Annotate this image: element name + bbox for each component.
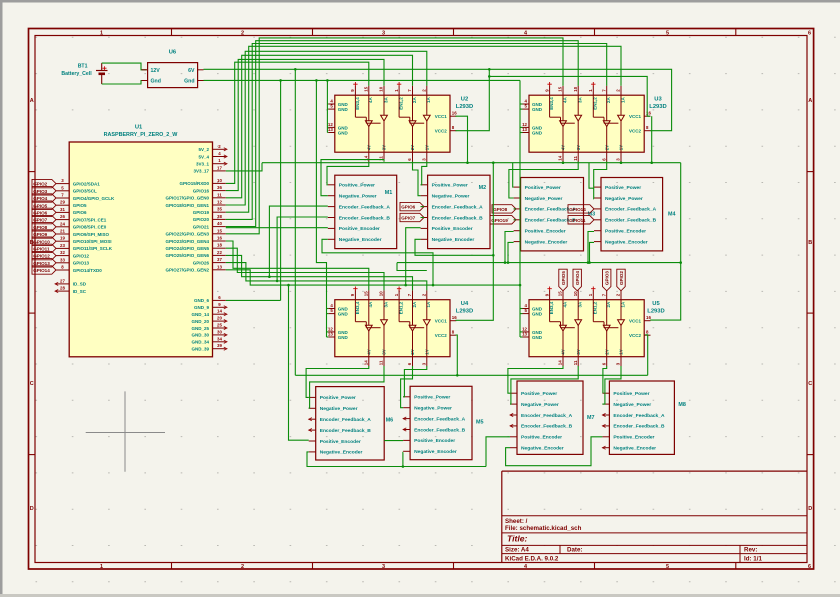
svg-text:GPIO8: GPIO8 <box>33 225 47 230</box>
svg-text:Positive_Encoder: Positive_Encoder <box>613 435 654 441</box>
svg-text:39: 39 <box>217 343 222 348</box>
svg-text:Encoder_Feedback_A: Encoder_Feedback_A <box>432 204 484 210</box>
svg-text:GPIO5: GPIO5 <box>73 203 87 208</box>
svg-text:U6: U6 <box>169 50 177 56</box>
svg-text:GPIO24/GPIO_GEN5: GPIO24/GPIO_GEN5 <box>165 246 209 251</box>
wire 6V branch to U3 VCC1 <box>489 76 650 116</box>
svg-text:GPIO3/SCL: GPIO3/SCL <box>73 189 97 194</box>
svg-text:35: 35 <box>217 207 222 212</box>
svg-text:ID_SC: ID_SC <box>73 289 87 294</box>
svg-text:25: 25 <box>217 323 222 328</box>
svg-text:18: 18 <box>217 243 222 248</box>
svg-text:GND: GND <box>338 131 349 136</box>
wire Gnd drop to U2 GND pins <box>326 80 329 132</box>
svg-text:1: 1 <box>100 30 103 36</box>
svg-text:2: 2 <box>241 564 244 570</box>
driver U2 L293D <box>328 82 457 162</box>
wire U1 GND_6 to Gnd vertical <box>226 299 281 301</box>
svg-text:Positive_Power: Positive_Power <box>605 185 641 191</box>
svg-text:GND_20: GND_20 <box>191 319 209 324</box>
svg-text:C: C <box>808 381 812 387</box>
svg-text:VCC2: VCC2 <box>629 333 642 338</box>
svg-text:GPIO2: GPIO2 <box>619 271 624 285</box>
svg-text:GND: GND <box>532 312 543 317</box>
svg-text:Negative_Encoder: Negative_Encoder <box>432 237 475 243</box>
svg-text:U2: U2 <box>461 97 468 103</box>
svg-text:GND_25: GND_25 <box>191 326 209 331</box>
svg-text:GND: GND <box>338 335 349 340</box>
svg-text:GPIO7: GPIO7 <box>401 216 415 221</box>
svg-text:Title:: Title: <box>507 534 528 544</box>
svg-text:Encoder_Feedback_B: Encoder_Feedback_B <box>320 428 372 434</box>
wire VCC1 rail <box>262 161 681 164</box>
svg-text:VCC2: VCC2 <box>629 129 642 134</box>
svg-text:Negative_Power: Negative_Power <box>432 194 470 200</box>
svg-text:GND_30: GND_30 <box>191 333 209 338</box>
wire M4 positive encoder to node line <box>587 232 594 264</box>
svg-text:GPIO21: GPIO21 <box>193 224 210 229</box>
wire Gnd vertical to U1 GND pin <box>280 80 282 300</box>
svg-text:GPIO9/SPI_MISO: GPIO9/SPI_MISO <box>73 232 110 237</box>
svg-text:3: 3 <box>382 30 385 36</box>
svg-text:14: 14 <box>558 360 563 365</box>
svg-text:GPIO9: GPIO9 <box>33 232 47 237</box>
svg-text:11: 11 <box>379 360 384 365</box>
svg-text:GPIO14: GPIO14 <box>569 207 586 212</box>
svg-text:37: 37 <box>217 257 222 262</box>
wire M5 positive encoder <box>384 440 403 442</box>
svg-text:32: 32 <box>60 250 65 255</box>
wire battery to U6 <box>102 63 147 84</box>
svg-text:17: 17 <box>217 165 222 170</box>
svg-text:GPIO3: GPIO3 <box>605 271 610 285</box>
svg-text:14: 14 <box>558 155 563 160</box>
wire M1 positive encoder from U1 GPIO21 <box>226 227 328 229</box>
wire U5 outputs to M7 <box>508 366 578 404</box>
svg-text:GPIO20: GPIO20 <box>193 217 210 222</box>
svg-text:C: C <box>30 381 34 387</box>
svg-text:Positive_Encoder: Positive_Encoder <box>320 439 361 445</box>
wire U5 outputs to M8 <box>602 366 621 404</box>
hierarchical labels GPIO2-GPIO5 at U5 inputs <box>559 269 625 291</box>
svg-text:Negative_Encoder: Negative_Encoder <box>339 237 382 243</box>
svg-text:M5: M5 <box>476 419 484 425</box>
wire U2 outputs to M2 <box>413 162 427 196</box>
svg-text:10: 10 <box>217 178 222 183</box>
svg-text:GPIO16: GPIO16 <box>193 188 210 193</box>
svg-text:13: 13 <box>217 264 222 269</box>
hierarchical labels GPIO2-GPIO14 at U1 <box>32 179 56 274</box>
svg-text:GPIO14: GPIO14 <box>33 268 50 273</box>
svg-text:38: 38 <box>217 214 222 219</box>
wire U4 outputs to M5 <box>401 366 427 408</box>
hierarchical labels GPIO8 GPIO19 at M3 <box>490 205 516 224</box>
svg-text:GPIO22/GPIO_GEN3: GPIO22/GPIO_GEN3 <box>165 232 209 237</box>
wire M1 negative encoder loop <box>322 239 434 286</box>
connector M4 motor <box>594 178 676 251</box>
svg-text:10: 10 <box>573 291 578 296</box>
svg-text:Positive_Power: Positive_Power <box>525 185 561 191</box>
wire U3 outputs to M4 <box>589 162 621 199</box>
wire U2 VCC2 to 6V <box>456 69 491 130</box>
svg-text:GPIO14/TXD0: GPIO14/TXD0 <box>73 268 103 273</box>
wire Gnd drop to U4 GND pins <box>316 80 328 337</box>
svg-text:GPIO4: GPIO4 <box>33 196 47 201</box>
svg-text:GPIO3: GPIO3 <box>33 189 47 194</box>
svg-text:File: schematic.kicad_sch: File: schematic.kicad_sch <box>505 525 582 532</box>
wire long node line below M blocks <box>397 261 682 270</box>
svg-text:GPIO19: GPIO19 <box>193 210 210 215</box>
svg-text:RASPBERRY_PI_ZERO_2_W: RASPBERRY_PI_ZERO_2_W <box>104 132 179 138</box>
svg-text:Battery_Cell: Battery_Cell <box>61 71 92 77</box>
svg-text:GPIO12: GPIO12 <box>33 254 50 259</box>
svg-text:GND: GND <box>532 335 543 340</box>
svg-text:BT1: BT1 <box>78 64 88 70</box>
svg-text:Negative_Power: Negative_Power <box>339 194 377 200</box>
svg-text:GPIO6: GPIO6 <box>401 205 415 210</box>
svg-text:5V_4: 5V_4 <box>198 154 209 159</box>
svg-text:GPIO13: GPIO13 <box>73 261 90 266</box>
svg-text:Encoder_Feedback_A: Encoder_Feedback_A <box>414 416 466 422</box>
driver U5 L293D <box>522 287 651 367</box>
svg-text:Positive_Power: Positive_Power <box>339 183 375 189</box>
connector M3 motor <box>514 178 596 251</box>
svg-text:GPIO15/RXD0: GPIO15/RXD0 <box>179 181 209 186</box>
svg-text:Sheet: /: Sheet: / <box>505 518 528 525</box>
svg-text:B: B <box>808 240 812 246</box>
connector M2 motor <box>421 175 490 248</box>
svg-text:GPIO10/SPI_MOSI: GPIO10/SPI_MOSI <box>73 239 112 244</box>
svg-text:GPIO5: GPIO5 <box>33 203 47 208</box>
svg-text:GPIO7/SPI_CE1: GPIO7/SPI_CE1 <box>73 217 107 222</box>
svg-text:Positive_Encoder: Positive_Encoder <box>339 226 380 232</box>
svg-text:28: 28 <box>60 286 65 291</box>
wire M6 negative encoder loop <box>307 452 486 467</box>
svg-text:30: 30 <box>217 329 222 334</box>
svg-text:Negative_Power: Negative_Power <box>414 406 452 412</box>
svg-text:26: 26 <box>60 214 65 219</box>
svg-text:10: 10 <box>379 86 384 91</box>
svg-text:GPIO5: GPIO5 <box>561 271 566 285</box>
svg-text:VCC2: VCC2 <box>435 129 448 134</box>
wire M1 encoder feedback to lower band <box>268 206 328 282</box>
svg-text:6: 6 <box>808 30 811 36</box>
svg-text:U3: U3 <box>654 97 662 103</box>
svg-text:M8: M8 <box>678 402 686 408</box>
svg-text:Date:: Date: <box>567 547 582 554</box>
svg-text:VCC1: VCC1 <box>629 319 642 324</box>
svg-text:GND: GND <box>338 107 349 112</box>
svg-text:GND_14: GND_14 <box>191 312 209 317</box>
svg-text:1: 1 <box>100 564 103 570</box>
svg-text:D: D <box>30 506 34 512</box>
svg-text:GPIO11: GPIO11 <box>33 247 50 252</box>
svg-text:M2: M2 <box>479 185 487 191</box>
svg-text:27: 27 <box>60 278 65 283</box>
svg-text:Gnd: Gnd <box>184 79 194 85</box>
svg-text:24: 24 <box>60 221 65 226</box>
svg-text:GPIO6: GPIO6 <box>73 210 87 215</box>
svg-text:GPIO2/SDA1: GPIO2/SDA1 <box>73 181 101 186</box>
svg-text:GND: GND <box>532 107 543 112</box>
svg-text:29: 29 <box>60 200 65 205</box>
wire U4 outputs to M6 <box>306 366 384 408</box>
svg-text:U4: U4 <box>461 301 469 307</box>
svg-text:M4: M4 <box>668 212 676 218</box>
svg-text:5: 5 <box>666 30 669 36</box>
svg-text:3V3_17: 3V3_17 <box>193 169 209 174</box>
svg-text:Positive_Power: Positive_Power <box>414 395 450 401</box>
svg-text:6V: 6V <box>188 68 195 74</box>
wire M3 negative encoder loop <box>507 242 514 264</box>
svg-text:31: 31 <box>60 207 65 212</box>
svg-text:GND: GND <box>338 312 349 317</box>
svg-text:14: 14 <box>364 360 369 365</box>
wire M6 positive encoder from node <box>287 284 309 440</box>
svg-text:GPIO10: GPIO10 <box>33 239 50 244</box>
svg-text:L293D: L293D <box>647 309 664 315</box>
svg-text:Positive_Power: Positive_Power <box>613 391 649 397</box>
svg-text:GPIO17/GPIO_GEN0: GPIO17/GPIO_GEN0 <box>165 196 209 201</box>
svg-text:Encoder_Feedback_B: Encoder_Feedback_B <box>339 215 391 221</box>
svg-text:2: 2 <box>241 30 244 36</box>
svg-text:22: 22 <box>217 250 222 255</box>
svg-text:ID_SD: ID_SD <box>73 282 87 287</box>
connector M1 motor <box>328 175 397 248</box>
wire M2 negative encoder loop <box>415 239 493 255</box>
svg-text:15: 15 <box>364 86 369 91</box>
svg-text:15: 15 <box>364 291 369 296</box>
svg-text:Encoder_Feedback_A: Encoder_Feedback_A <box>320 417 372 423</box>
wire M3 positive encoder <box>504 232 514 264</box>
svg-text:VCC1: VCC1 <box>435 319 448 324</box>
sheet title block <box>502 471 807 562</box>
svg-text:Negative_Encoder: Negative_Encoder <box>605 239 648 245</box>
wire U3 VCC1 to U5 VCC1 chain <box>650 116 681 320</box>
svg-text:14: 14 <box>217 309 222 314</box>
svg-text:M6: M6 <box>386 418 394 424</box>
wire 6V drop to lower rail <box>294 68 297 375</box>
svg-text:10: 10 <box>379 291 384 296</box>
wire Gnd rail from U6 <box>204 79 521 82</box>
svg-text:GPIO25/GPIO_GEN6: GPIO25/GPIO_GEN6 <box>165 253 209 258</box>
driver U4 L293D <box>328 287 457 367</box>
svg-text:34: 34 <box>217 336 222 341</box>
svg-text:L293D: L293D <box>649 104 666 110</box>
svg-text:15: 15 <box>558 86 563 91</box>
svg-text:5V_2: 5V_2 <box>198 147 209 152</box>
svg-text:21: 21 <box>60 229 65 234</box>
svg-text:VCC2: VCC2 <box>435 333 448 338</box>
wire M4 negative encoder loop <box>588 242 594 264</box>
svg-text:M7: M7 <box>587 415 595 421</box>
svg-text:Negative_Encoder: Negative_Encoder <box>521 446 564 452</box>
svg-text:Positive_Encoder: Positive_Encoder <box>525 229 566 235</box>
svg-text:11: 11 <box>573 156 578 161</box>
connector M5 motor <box>403 386 483 459</box>
svg-text:GPIO23/GPIO_GEN4: GPIO23/GPIO_GEN4 <box>165 239 209 244</box>
svg-text:Encoder_Feedback_B: Encoder_Feedback_B <box>521 424 573 430</box>
svg-text:GND_9: GND_9 <box>194 305 210 310</box>
svg-text:A: A <box>808 98 812 104</box>
svg-text:GPIO4/GPIO_GCLK: GPIO4/GPIO_GCLK <box>73 196 115 201</box>
svg-text:Encoder_Feedback_B: Encoder_Feedback_B <box>613 424 665 430</box>
wire band U1 to U4 inputs <box>226 241 427 290</box>
svg-text:Negative_Power: Negative_Power <box>613 402 651 408</box>
wire Gnd drop to U3 and U5 GND pins <box>520 80 523 337</box>
svg-text:A: A <box>30 98 34 104</box>
connector M6 motor <box>309 387 394 460</box>
svg-text:13: 13 <box>328 332 333 337</box>
svg-text:20: 20 <box>217 316 222 321</box>
svg-text:Size: A4: Size: A4 <box>505 547 529 554</box>
svg-text:16: 16 <box>452 111 457 116</box>
origin marker cross <box>86 391 165 471</box>
wire lower power rail <box>295 374 647 376</box>
hierarchical labels GPIO14 GPIO11 at M4 <box>568 205 594 224</box>
svg-text:10: 10 <box>573 86 578 91</box>
svg-text:19: 19 <box>60 236 65 241</box>
svg-text:16: 16 <box>646 315 651 320</box>
wire U1 3V3_17 to VCC1 rail <box>226 163 262 171</box>
svg-text:Gnd: Gnd <box>151 79 161 85</box>
wire M7 negative encoder loop to M8 positive encoder <box>506 437 603 466</box>
svg-text:40: 40 <box>217 221 222 226</box>
svg-text:U1: U1 <box>135 124 143 130</box>
wire M2 positive encoder drop <box>404 228 420 287</box>
svg-text:12V: 12V <box>151 68 161 74</box>
svg-text:Negative_Power: Negative_Power <box>605 196 643 202</box>
svg-text:U5: U5 <box>652 301 660 307</box>
svg-text:23: 23 <box>60 243 65 248</box>
svg-text:Negative_Encoder: Negative_Encoder <box>613 446 656 452</box>
svg-text:GPIO11: GPIO11 <box>569 218 586 223</box>
svg-text:Positive_Encoder: Positive_Encoder <box>605 229 646 235</box>
svg-text:Positive_Encoder: Positive_Encoder <box>432 226 473 232</box>
svg-text:Id: 1/1: Id: 1/1 <box>744 555 762 562</box>
svg-text:L293D: L293D <box>456 309 473 315</box>
svg-text:Encoder_Feedback_B: Encoder_Feedback_B <box>414 427 466 433</box>
svg-text:M1: M1 <box>385 190 393 196</box>
svg-text:Encoder_Feedback_A: Encoder_Feedback_A <box>605 207 657 213</box>
wire U3 outputs to M3 <box>509 162 578 199</box>
svg-text:GND: GND <box>532 131 543 136</box>
svg-text:GND_39: GND_39 <box>191 347 209 352</box>
wire U5 VCC2 to lower rail <box>645 335 647 376</box>
svg-text:11: 11 <box>217 192 222 197</box>
wire bundle U1 GPIO to U2/U3 inputs <box>226 38 621 234</box>
svg-text:6: 6 <box>808 564 811 570</box>
wire band U1 GPIO27 node <box>226 270 522 287</box>
svg-text:D: D <box>808 506 812 512</box>
connector M8 motor <box>602 381 686 454</box>
svg-text:Encoder_Feedback_A: Encoder_Feedback_A <box>339 204 391 210</box>
wire U4 VCC2 to lower rail <box>456 335 459 377</box>
hierarchical labels GPIO6 GPIO7 at M2 <box>400 202 424 221</box>
svg-text:33: 33 <box>60 257 65 262</box>
svg-text:Encoder_Feedback_B: Encoder_Feedback_B <box>432 215 484 221</box>
svg-text:15: 15 <box>558 291 563 296</box>
svg-text:11: 11 <box>573 360 578 365</box>
wire M5 negative encoder loop <box>402 452 405 468</box>
svg-text:GND_34: GND_34 <box>191 340 209 345</box>
svg-text:13: 13 <box>522 127 527 132</box>
svg-text:GPIO8: GPIO8 <box>493 207 507 212</box>
battery BT1 <box>61 63 107 84</box>
svg-text:GPIO18/GPIO_GEN1: GPIO18/GPIO_GEN1 <box>165 203 209 208</box>
svg-text:16: 16 <box>452 315 457 320</box>
svg-text:Negative_Encoder: Negative_Encoder <box>525 239 568 245</box>
driver U3 L293D <box>522 82 651 162</box>
wire U4 VCC1 from rail <box>456 163 495 321</box>
wire bus to M7 positive encoder <box>486 437 510 467</box>
svg-text:KiCad E.D.A. 9.0.2: KiCad E.D.A. 9.0.2 <box>505 555 559 562</box>
svg-text:3: 3 <box>382 564 385 570</box>
svg-text:GPIO26: GPIO26 <box>193 260 210 265</box>
svg-text:16: 16 <box>217 236 222 241</box>
svg-text:GPIO6: GPIO6 <box>33 211 47 216</box>
wire U2 VCC1 to rail <box>456 116 468 163</box>
wire U2 outputs to M1 <box>321 160 384 196</box>
svg-text:15: 15 <box>217 228 222 233</box>
wire 6V rail from U6 <box>204 68 672 131</box>
svg-text:GPIO12: GPIO12 <box>73 253 90 258</box>
svg-text:GPIO27/GPIO_GEN2: GPIO27/GPIO_GEN2 <box>165 268 209 273</box>
svg-text:3V3_1: 3V3_1 <box>196 162 210 167</box>
connector M7 motor <box>510 381 595 454</box>
svg-text:Positive_Encoder: Positive_Encoder <box>414 438 455 444</box>
svg-text:GPIO4: GPIO4 <box>575 271 580 285</box>
svg-text:13: 13 <box>522 332 527 337</box>
svg-text:GPIO13: GPIO13 <box>33 261 50 266</box>
svg-text:L293D: L293D <box>456 104 473 110</box>
svg-text:VCC1: VCC1 <box>435 114 448 119</box>
svg-text:VCC1: VCC1 <box>629 114 642 119</box>
svg-text:GND_6: GND_6 <box>194 298 210 303</box>
svg-text:GPIO8/SPI_CE0: GPIO8/SPI_CE0 <box>73 225 107 230</box>
svg-text:12: 12 <box>217 200 222 205</box>
svg-text:Negative_Power: Negative_Power <box>521 402 559 408</box>
svg-text:13: 13 <box>328 127 333 132</box>
svg-text:Encoder_Feedback_A: Encoder_Feedback_A <box>521 413 573 419</box>
svg-text:Negative_Encoder: Negative_Encoder <box>320 450 363 456</box>
svg-text:Negative_Power: Negative_Power <box>320 406 358 412</box>
svg-text:Positive_Encoder: Positive_Encoder <box>521 435 562 441</box>
svg-text:GPIO2: GPIO2 <box>33 182 47 187</box>
svg-text:36: 36 <box>217 185 222 190</box>
svg-text:Positive_Power: Positive_Power <box>521 391 557 397</box>
svg-text:GPIO11/SPI_SCLK: GPIO11/SPI_SCLK <box>73 246 113 251</box>
svg-text:GPIO7: GPIO7 <box>33 218 47 223</box>
svg-text:Encoder_Feedback_A: Encoder_Feedback_A <box>613 413 665 419</box>
svg-text:Positive_Power: Positive_Power <box>432 183 468 189</box>
svg-text:Rev:: Rev: <box>744 547 757 554</box>
svg-text:Encoder_Feedback_B: Encoder_Feedback_B <box>605 218 657 224</box>
regulator U6 <box>142 50 204 88</box>
svg-text:Negative_Encoder: Negative_Encoder <box>414 449 457 455</box>
svg-text:Negative_Power: Negative_Power <box>525 196 563 202</box>
svg-text:5: 5 <box>666 564 669 570</box>
svg-text:Positive_Power: Positive_Power <box>320 395 356 401</box>
MCU U1 RASPBERRY_PI_ZERO_2_W <box>55 124 227 356</box>
